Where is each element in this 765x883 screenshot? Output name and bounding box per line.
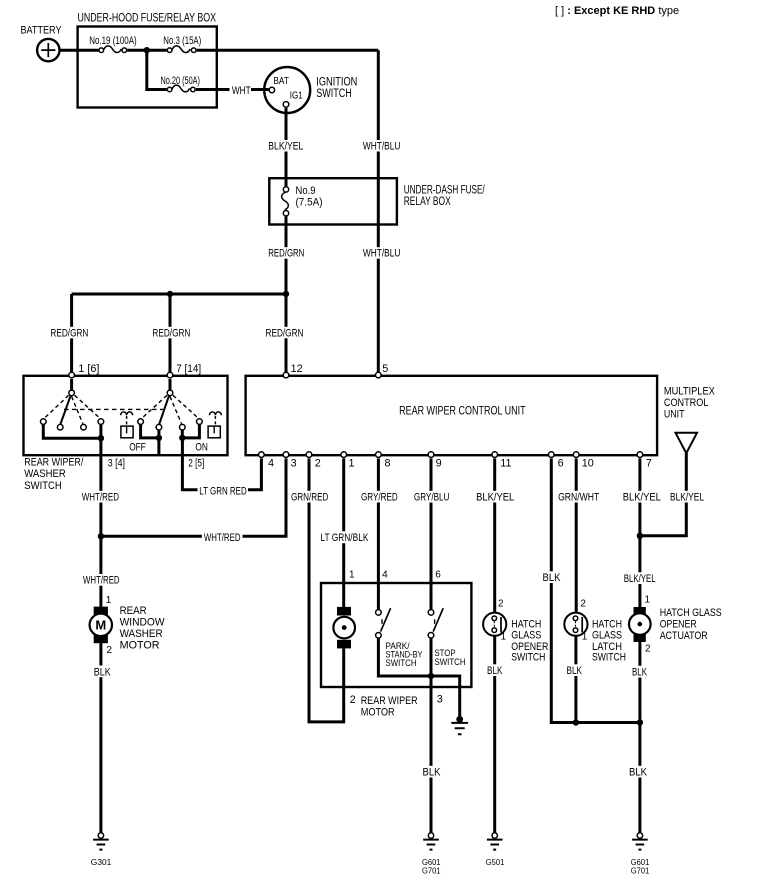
node junction WHT/RED <box>98 533 104 539</box>
wire WHT/RED horizontal to pin 3 <box>101 458 286 536</box>
svg-text:BATTERY: BATTERY <box>21 25 63 37</box>
svg-text:UNDER-DASH FUSE/: UNDER-DASH FUSE/ <box>404 185 486 197</box>
svg-text:RED/GRN: RED/GRN <box>268 248 304 260</box>
wire bracket 3 [4] <box>43 425 101 439</box>
svg-text:2: 2 <box>498 598 504 609</box>
svg-text:HATCH GLASS: HATCH GLASS <box>660 607 722 619</box>
switch pivot left <box>69 390 75 396</box>
svg-text:5: 5 <box>382 363 388 375</box>
wire BLK/YEL multiplex antenna to pin 7 wire <box>640 453 686 536</box>
multiplex control unit antenna <box>676 433 698 453</box>
pin 7 [14] <box>167 372 173 378</box>
pin 2 <box>306 452 312 458</box>
svg-text:HATCH: HATCH <box>592 618 622 630</box>
svg-text:SWITCH: SWITCH <box>386 658 417 668</box>
park/stand-by switch <box>376 608 391 638</box>
switch blade right solid <box>159 396 169 424</box>
wire RED/GRN fuse No.9 to pin 12 <box>285 216 288 372</box>
pin 8 <box>376 452 382 458</box>
fuse No.19 (100A) <box>99 46 127 53</box>
svg-text:2: 2 <box>580 598 586 609</box>
wire BLK/YEL pin 11 to opener switch and ground G501 <box>493 458 496 833</box>
node junction RED/GRN distribution left <box>167 291 173 297</box>
svg-text:(7.5A): (7.5A) <box>296 197 323 209</box>
svg-text:GLASS: GLASS <box>592 630 622 642</box>
wire pin 1 [6] to left pivot <box>70 379 73 390</box>
svg-text:GRN/WHT: GRN/WHT <box>558 492 600 504</box>
svg-text:BLK/YEL: BLK/YEL <box>268 140 303 152</box>
pin 12 <box>283 372 289 378</box>
wire RED/GRN distribution horizontal <box>72 293 286 296</box>
wire BLK/YEL pin 7 to actuator <box>638 458 641 607</box>
svg-text:GLASS: GLASS <box>511 630 541 642</box>
svg-text:[ ] : Except KE RHD type: [ ] : Except KE RHD type <box>555 5 679 17</box>
svg-text:ACTUATOR: ACTUATOR <box>660 630 708 642</box>
wire OFF contact stub <box>157 438 160 455</box>
ground G601 G701 right <box>632 833 648 850</box>
svg-text:1 [6]: 1 [6] <box>78 363 99 375</box>
svg-text:1: 1 <box>349 570 355 581</box>
svg-text:BAT: BAT <box>273 76 289 87</box>
wire WHT fuse No.20 to ignition BAT <box>196 88 269 91</box>
node junction BLK/YEL pin 7 / multiplex <box>637 533 643 539</box>
wire GRN/RED pin 2 to rear wiper motor pin 2 <box>309 458 344 722</box>
stop switch <box>428 608 443 638</box>
rear window washer motor <box>90 607 112 644</box>
ground G301 <box>93 833 109 850</box>
wire BLK washer motor to ground G301 <box>99 643 102 833</box>
svg-text:OFF: OFF <box>129 442 146 454</box>
svg-text:LT GRN RED: LT GRN RED <box>199 486 247 498</box>
svg-text:4: 4 <box>268 458 274 470</box>
pin 11 <box>492 452 498 458</box>
svg-text:9: 9 <box>436 458 442 470</box>
svg-text:G501: G501 <box>486 857 505 867</box>
svg-text:8: 8 <box>385 458 391 470</box>
under-hood fuse/relay box <box>78 27 217 108</box>
svg-text:11: 11 <box>500 458 511 470</box>
wire LT GRN RED switch 2 [5] to pin 4 <box>182 438 261 490</box>
svg-text:No.20 (50A): No.20 (50A) <box>161 75 201 87</box>
svg-text:WHT/BLU: WHT/BLU <box>363 248 401 260</box>
svg-text:1: 1 <box>582 632 588 643</box>
wire GRY/BLU pin 9 to stop switch <box>430 458 433 609</box>
svg-text:6: 6 <box>435 570 441 581</box>
svg-text:7 [14]: 7 [14] <box>176 363 201 375</box>
svg-text:RED/GRN: RED/GRN <box>266 327 304 339</box>
wire node to fuse No.20 <box>147 50 167 89</box>
svg-text:UNIT: UNIT <box>664 409 685 421</box>
svg-text:1: 1 <box>501 632 507 643</box>
rear wiper control unit box <box>246 376 657 455</box>
wire stop switch pin 3 to ground G601 G701 <box>430 638 433 833</box>
node junction bracket OFF <box>156 435 162 441</box>
wire bracket ON <box>182 425 199 438</box>
svg-text:3: 3 <box>437 694 443 706</box>
node junction bracket 3 [4] <box>98 435 104 441</box>
fuse No.3 (15A) <box>167 46 196 53</box>
pin 10 <box>573 452 579 458</box>
svg-text:4: 4 <box>382 570 388 581</box>
battery <box>37 39 59 61</box>
svg-text:REAR WIPER: REAR WIPER <box>361 695 418 707</box>
svg-text:SWITCH: SWITCH <box>511 652 545 664</box>
svg-text:GRN/RED: GRN/RED <box>291 492 329 504</box>
switch blade left solid <box>60 396 70 424</box>
node junction latch / actuator <box>637 719 643 725</box>
hatch glass opener switch <box>483 613 506 636</box>
pin 1 <box>341 452 347 458</box>
wire WHT/RED junction to washer motor <box>99 536 102 607</box>
pin 4 <box>259 452 265 458</box>
svg-text:3 [4]: 3 [4] <box>108 457 125 469</box>
svg-text:BLK: BLK <box>423 767 442 779</box>
switch contacts right <box>138 419 202 430</box>
svg-text:BLK: BLK <box>632 667 648 679</box>
svg-text:IG1: IG1 <box>290 90 303 101</box>
svg-text:RED/GRN: RED/GRN <box>50 327 88 339</box>
ignition switch U <box>264 67 310 113</box>
svg-text:REAR WIPER/: REAR WIPER/ <box>24 457 84 469</box>
OFF indicator lamp <box>121 412 134 438</box>
svg-text:1: 1 <box>106 595 112 606</box>
svg-text:RELAY BOX: RELAY BOX <box>404 196 451 208</box>
hatch glass opener actuator <box>629 607 651 642</box>
node junction bracket ON <box>179 435 185 441</box>
wire junction to actuator wire <box>576 721 640 724</box>
ground G501 <box>487 833 503 850</box>
svg-text:RED/GRN: RED/GRN <box>152 327 190 339</box>
svg-text:BLK/YEL: BLK/YEL <box>670 492 704 504</box>
svg-text:2: 2 <box>350 694 356 706</box>
svg-text:BLK: BLK <box>567 665 583 677</box>
svg-text:WHT/RED: WHT/RED <box>204 532 241 544</box>
svg-text:2: 2 <box>107 645 113 656</box>
wire stop switch junction to case ground <box>431 676 460 716</box>
svg-text:No.19 (100A): No.19 (100A) <box>89 35 137 47</box>
svg-text:BLK: BLK <box>543 572 562 584</box>
svg-text:WHT: WHT <box>232 85 251 97</box>
svg-text:BLK/YEL: BLK/YEL <box>624 573 656 585</box>
svg-text:BLK: BLK <box>487 665 503 677</box>
svg-text:UNDER-HOOD FUSE/RELAY BOX: UNDER-HOOD FUSE/RELAY BOX <box>78 10 217 24</box>
rear wiper motor M <box>333 607 355 648</box>
svg-text:G701: G701 <box>422 866 441 876</box>
switch pivot right <box>167 390 173 396</box>
svg-text:WASHER: WASHER <box>120 628 163 640</box>
rear wiper motor box <box>321 583 471 687</box>
node junction fuse No.19 / No.3 / No.20 <box>144 47 150 53</box>
wire LT GRN/BLK pin 1 to rear wiper motor pin 1 <box>342 458 345 607</box>
rear wiper/washer switch box <box>24 376 228 455</box>
pin 9 <box>428 452 434 458</box>
svg-text:REAR WIPER CONTROL UNIT: REAR WIPER CONTROL UNIT <box>399 404 526 418</box>
switch dashed fan right <box>142 395 198 423</box>
ground G601 G701 left <box>423 833 439 850</box>
svg-text:G301: G301 <box>91 857 112 867</box>
node junction stop switch / grounds <box>428 673 434 679</box>
pin 6 <box>549 452 555 458</box>
svg-text:REAR: REAR <box>120 605 147 617</box>
wire RED/GRN drop to pin 1 [6] <box>70 294 73 372</box>
svg-text:WHT/BLU: WHT/BLU <box>363 140 401 152</box>
fuse No.9 (7.5A) <box>282 187 289 216</box>
svg-text:SWITCH: SWITCH <box>316 88 352 100</box>
wire fuse No.3 to WHT/BLU corner <box>197 49 379 52</box>
ground rear wiper motor case <box>451 716 468 734</box>
svg-text:10: 10 <box>582 458 594 470</box>
wire bracket OFF <box>141 425 159 438</box>
svg-text:1: 1 <box>645 594 651 605</box>
svg-text:7: 7 <box>646 458 652 470</box>
svg-text:LT GRN/BLK: LT GRN/BLK <box>321 532 370 544</box>
svg-text:M: M <box>95 618 106 633</box>
fuse No.20 (50A) <box>167 85 195 92</box>
svg-text:IGNITION: IGNITION <box>316 77 357 89</box>
pin 7 <box>637 452 643 458</box>
svg-text:WHT/RED: WHT/RED <box>83 575 120 587</box>
wire WHT/RED switch 3 [4] down to junction <box>99 438 102 536</box>
svg-text:2: 2 <box>645 644 651 655</box>
pin 3 <box>283 452 289 458</box>
wire BLK pin 6 to latch junction <box>551 458 576 722</box>
svg-text:MOTOR: MOTOR <box>361 707 395 719</box>
svg-text:OPENER: OPENER <box>660 618 697 630</box>
wire latch switch to junction <box>574 636 577 723</box>
svg-text:BLK/YEL: BLK/YEL <box>476 492 514 504</box>
PLATES <box>49 85 707 778</box>
svg-text:2 [5]: 2 [5] <box>188 457 204 469</box>
svg-text:HATCH: HATCH <box>511 618 541 630</box>
svg-text:WASHER: WASHER <box>24 468 65 480</box>
under-dash fuse/relay box <box>269 178 397 224</box>
switch contacts left <box>41 419 104 430</box>
svg-text:BLK/YEL: BLK/YEL <box>623 492 661 504</box>
svg-text:SWITCH: SWITCH <box>24 480 61 492</box>
svg-text:WINDOW: WINDOW <box>120 617 166 629</box>
svg-text:WHT/RED: WHT/RED <box>82 492 119 504</box>
wire BLK/YEL IG1 to under-dash fuse box <box>285 108 288 186</box>
svg-text:2: 2 <box>315 458 321 470</box>
wire battery to fuse No.19 <box>59 49 98 52</box>
svg-text:BLK: BLK <box>629 767 648 779</box>
pin 5 <box>376 372 382 378</box>
node junction pin 6 / latch <box>573 719 579 725</box>
node junction RED/GRN distribution main <box>283 291 289 297</box>
svg-text:SWITCH: SWITCH <box>435 657 466 667</box>
hatch glass latch switch <box>564 613 587 636</box>
svg-text:6: 6 <box>558 458 564 470</box>
pin 1 [6] <box>69 372 75 378</box>
svg-text:1: 1 <box>349 458 355 470</box>
wire pin 7 [14] to right pivot <box>169 379 172 390</box>
switch dashed fan left <box>45 395 100 423</box>
wire GRY/RED pin 8 to park switch <box>377 458 380 609</box>
ON indicator lamp <box>208 412 221 438</box>
svg-text:GRY/RED: GRY/RED <box>361 492 398 504</box>
svg-text:ON: ON <box>195 442 208 454</box>
svg-text:MOTOR: MOTOR <box>120 640 160 652</box>
svg-text:CONTROL: CONTROL <box>664 397 709 409</box>
wire WHT/BLU vertical to pin 5 <box>377 50 380 372</box>
svg-text:MULTIPLEX: MULTIPLEX <box>664 385 715 397</box>
svg-text:12: 12 <box>291 363 303 375</box>
wire park switch to stop switch junction <box>378 638 431 676</box>
svg-text:G701: G701 <box>631 866 650 876</box>
switch ganged link dashed <box>64 408 163 410</box>
svg-text:BLK: BLK <box>94 666 112 678</box>
svg-text:GRY/BLU: GRY/BLU <box>414 492 450 504</box>
wire fuse No.19 to fuse No.3 through node <box>127 49 167 52</box>
wire RED/GRN drop to pin 7 [14] <box>169 294 172 372</box>
svg-text:SWITCH: SWITCH <box>592 652 626 664</box>
svg-text:3: 3 <box>291 458 297 470</box>
svg-text:No.9: No.9 <box>296 185 316 197</box>
svg-text:No.3 (15A): No.3 (15A) <box>163 35 201 47</box>
wire BLK actuator to ground G601 G701 <box>638 642 641 833</box>
wire GRN/WHT pin 10 to latch switch <box>575 458 578 612</box>
